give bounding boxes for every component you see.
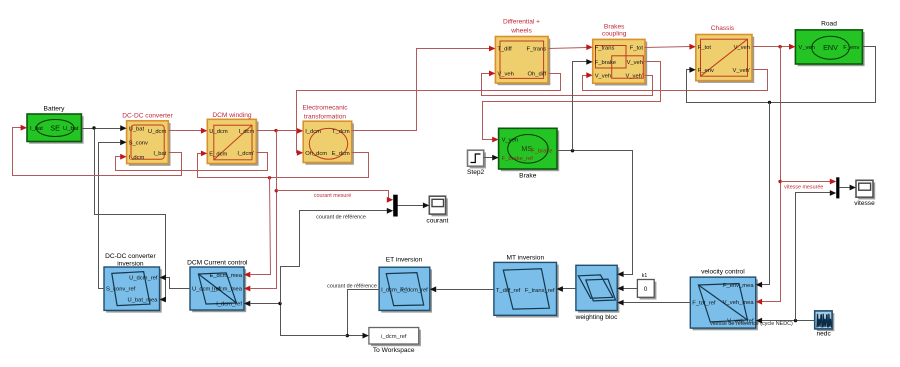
wire DC-DC U_dcm to DCM winding U_dcm (red)	[169, 130, 202, 132]
svg-text:S_conv_ref: S_conv_ref	[106, 287, 136, 293]
wire E_dcm measure down to DCM Current control E_dcm_mea (red)	[251, 178, 271, 275]
svg-text:F_env: F_env	[698, 68, 714, 74]
wire Battery U_bat to DC-DC converter U_bat (black)	[82, 128, 121, 130]
svg-text:V_veh: V_veh	[497, 72, 513, 78]
wire F_env measure down to velocity control F_env_mea (black)	[762, 103, 770, 285]
svg-text:U_bat_mea: U_bat_mea	[128, 298, 159, 304]
wire k1 to weighting bloc input 2 (black)	[624, 288, 638, 290]
svg-text:I_bat: I_bat	[30, 126, 43, 132]
wire F_brake up to Brakes coupling F_brake (black)	[573, 62, 587, 151]
svg-text:Oh_diff: Oh_diff	[528, 72, 547, 78]
wire i_dcm_ref to DCM Current control I_dcm_ref (black)	[251, 304, 348, 336]
node junction vitesse de reference	[794, 319, 797, 322]
svg-text:U_bat: U_bat	[63, 126, 79, 132]
svg-text:MT inversion: MT inversion	[506, 254, 544, 261]
control block DC-DC converter inversion	[106, 269, 162, 312]
svg-text:Step2: Step2	[467, 169, 485, 176]
source block Step2	[470, 152, 486, 168]
control block DCM Current control	[192, 269, 246, 312]
wire Electromecanic E_dcm feedback to DCM winding E_dcm (red)	[198, 153, 369, 178]
svg-text:V_veh: V_veh	[502, 138, 518, 144]
wire Differential Oh_diff feedback to Electromecanic Oh_dcm (red)	[297, 74, 561, 153]
svg-text:DC-DC converter: DC-DC converter	[122, 113, 173, 120]
svg-text:I_dcm_ref: I_dcm_ref	[216, 302, 242, 308]
svg-text:E_dcm_mea: E_dcm_mea	[209, 273, 242, 279]
svg-text:Electromecanic: Electromecanic	[302, 105, 348, 112]
wire Brakes V_veh (mid) to Brake V_veh (red)	[483, 62, 661, 140]
wire I_dcm measure down to DCM Current control I_dcm_mea (red)	[251, 131, 277, 289]
svg-text:U_dcm_ref: U_dcm_ref	[192, 287, 221, 293]
svg-text:E_dcm: E_dcm	[332, 151, 350, 157]
subsystem Differential + wheels	[498, 39, 551, 85]
svg-text:Brakes: Brakes	[604, 24, 625, 31]
svg-text:U_bat: U_bat	[129, 126, 145, 132]
subsystem Electromecanic transformation	[305, 123, 354, 164]
svg-text:E_dcm: E_dcm	[209, 152, 227, 158]
svg-text:F_trans: F_trans	[595, 45, 615, 51]
node junction i_dcm_ref	[346, 334, 349, 337]
wire Brakes V_veh' to Differential V_veh (red)	[482, 74, 653, 96]
control block MT inversion	[496, 265, 559, 318]
node junction courant de reference	[278, 302, 281, 305]
svg-text:I_dcm: I_dcm	[239, 129, 255, 135]
svg-text:V_veh: V_veh	[627, 60, 643, 66]
wire mux vitesse to scope vitesse (black)	[840, 187, 851, 189]
svg-text:ET inversion: ET inversion	[386, 257, 423, 264]
wire nedc to velocity control V_veh_ref (black)	[762, 320, 815, 322]
wire Brake F_brake to weighting bloc input 1 (black)	[557, 151, 633, 275]
source block Battery (SE)	[29, 116, 83, 144]
wire vitesse reference up to mux vitesse (black)	[796, 193, 831, 321]
wire Differential F_trans to Brakes coupling F_trans (red)	[549, 48, 587, 49]
svg-text:Oh_dcm: Oh_dcm	[305, 151, 327, 157]
svg-text:Chassis: Chassis	[711, 25, 735, 32]
wire MT inversion T_diff_ref to ET inversion T_dcm_ref (black)	[437, 289, 494, 291]
svg-text:coupling: coupling	[602, 31, 627, 38]
svg-text:Differential +: Differential +	[503, 19, 540, 26]
source block Brake (MS)	[501, 131, 559, 172]
wire courant mesure to mux (red)	[277, 191, 389, 200]
wire vitesse mesuree to mux (red)	[781, 181, 831, 183]
mux courant	[393, 195, 398, 217]
svg-text:ENV: ENV	[823, 43, 838, 52]
svg-text:V_veh_mea: V_veh_mea	[723, 300, 755, 306]
svg-text:V_veh': V_veh'	[625, 73, 643, 79]
node junction V_veh measure	[778, 45, 781, 48]
svg-text:I_dcm: I_dcm	[305, 129, 321, 135]
wire Chassis V_veh to Road V_veh (red)	[753, 46, 790, 48]
wire V_veh measure down to velocity control V_veh_mea (red)	[762, 47, 781, 302]
svg-text:wheels: wheels	[510, 28, 532, 35]
svg-text:DC-DC converter: DC-DC converter	[105, 253, 156, 260]
wire velocity control F_tot_ref to weighting bloc input 3 (black)	[624, 302, 691, 304]
svg-text:I_bat: I_bat	[153, 151, 166, 157]
svg-text:V_veh: V_veh	[595, 73, 611, 79]
svg-text:V_veh: V_veh	[734, 45, 750, 51]
source block nedc (NEDC cycle)	[817, 313, 834, 331]
svg-text:DCM winding: DCM winding	[212, 112, 252, 119]
svg-text:weighting bloc: weighting bloc	[575, 314, 618, 321]
svg-text:Road: Road	[821, 21, 837, 28]
svg-text:nedc: nedc	[816, 330, 831, 337]
wire DCM Current control U_dcm_ref to DC-DC inversion U_dcm_ref	[166, 278, 191, 289]
wire DCM winding I_dcm to Electromecanic I_dcm (red)	[257, 130, 298, 132]
node junction E_dcm measure	[268, 176, 271, 179]
svg-text:T_dcm: T_dcm	[332, 129, 350, 135]
svg-text:V_veh: V_veh	[798, 45, 814, 51]
To Workspace block i_dcm_ref	[371, 330, 421, 347]
svg-text:velocity control: velocity control	[701, 269, 745, 276]
wire DC-DC I_bat feedback to Battery I_bat (red)	[13, 128, 182, 176]
wire courant de reference staircase up to mux (black)	[281, 211, 388, 304]
wire mux courant to scope courant (black)	[398, 205, 424, 207]
svg-text:Brake: Brake	[519, 173, 537, 180]
wire ET inversion I_dcm_ref to To Workspace (black)	[348, 290, 380, 336]
wire Road F_env loop to Chassis F_env (black)	[687, 47, 876, 103]
svg-text:F_tot: F_tot	[698, 45, 712, 51]
svg-text:courant de référence: courant de référence	[327, 284, 377, 290]
control block ET inversion	[381, 269, 432, 312]
svg-text:F_tot: F_tot	[630, 45, 644, 51]
svg-text:V_veh': V_veh'	[732, 68, 750, 74]
svg-text:F_brake_ref: F_brake_ref	[502, 156, 534, 162]
wire U_bat measure down to DC-DC inversion U_bat_mea	[95, 129, 166, 300]
svg-text:To Workspace: To Workspace	[373, 347, 415, 354]
svg-text:k1: k1	[642, 273, 648, 279]
svg-text:I_dcm: I_dcm	[129, 155, 145, 161]
wire Electromecanic T_dcm up to Differential T_diff (red)	[352, 49, 490, 131]
node junction I_dcm measure	[274, 129, 277, 132]
control block velocity control	[693, 279, 758, 330]
svg-text:0: 0	[644, 286, 648, 293]
svg-text:F_trans: F_trans	[526, 47, 546, 53]
node junction on U_bat net	[92, 126, 95, 129]
svg-text:S_conv: S_conv	[129, 141, 148, 147]
wire Step2 to Brake F_brake_ref (black)	[484, 157, 493, 159]
wire weighting bloc to MT inversion F_trans_ref (black)	[563, 288, 576, 290]
scope block courant	[432, 198, 448, 216]
svg-text:U_dcm: U_dcm	[148, 129, 167, 135]
node junction vitesse mesuree	[778, 180, 781, 183]
svg-text:F_trans_ref: F_trans_ref	[525, 288, 555, 294]
subsystem DCM winding	[210, 122, 259, 166]
svg-text:i_dcm_ref: i_dcm_ref	[381, 334, 407, 340]
svg-text:Battery: Battery	[44, 106, 66, 113]
wire S_conv_ref from DC-DC inversion up to DC-DC converter S_conv	[99, 143, 121, 289]
svg-text:I_dcm': I_dcm'	[237, 151, 254, 157]
svg-text:T_diff_ref: T_diff_ref	[496, 288, 521, 294]
svg-text:SE: SE	[50, 123, 60, 132]
svg-text:courant: courant	[426, 217, 448, 224]
wire Chassis V_veh' feedback to Brakes coupling V_veh (red)	[583, 70, 768, 91]
svg-text:U_dcm_ref: U_dcm_ref	[129, 276, 158, 282]
svg-text:transformation: transformation	[304, 113, 346, 120]
scope block vitesse	[858, 183, 875, 200]
svg-text:F_env: F_env	[843, 45, 859, 51]
node junction F_brake	[571, 149, 574, 152]
svg-text:F_brake: F_brake	[595, 60, 616, 66]
svg-text:courant mesuré: courant mesuré	[314, 193, 351, 199]
control block weighting bloc	[578, 268, 619, 313]
wire Brakes F_tot to Chassis F_tot (red)	[645, 47, 691, 48]
mux vitesse	[836, 177, 839, 198]
svg-text:F_tot_ref: F_tot_ref	[692, 301, 716, 307]
svg-text:T_dcm_ref: T_dcm_ref	[400, 288, 428, 294]
svg-text:vitesse de référence (cycle NE: vitesse de référence (cycle NEDC)	[710, 321, 793, 327]
svg-text:F_env_mea: F_env_mea	[723, 283, 754, 289]
svg-text:DCM Current control: DCM Current control	[187, 259, 248, 266]
subsystem Chassis	[698, 37, 754, 83]
svg-text:inversion: inversion	[117, 261, 144, 268]
gain/constant block k1 (value 0)	[640, 282, 657, 300]
svg-text:F_brake: F_brake	[531, 149, 552, 155]
subsystem Brakes coupling	[595, 42, 647, 86]
svg-text:T_diff: T_diff	[497, 47, 512, 53]
node junction F_env measure	[768, 101, 771, 104]
svg-text:courant de référence: courant de référence	[316, 214, 366, 220]
subsystem DC-DC converter	[129, 123, 171, 166]
svg-text:vitesse: vitesse	[854, 200, 875, 207]
svg-text:U_dcm: U_dcm	[209, 129, 228, 135]
source block Road (ENV)	[798, 32, 865, 66]
svg-text:vitesse mesurée: vitesse mesurée	[784, 184, 823, 190]
node junction courant mesure	[275, 189, 278, 192]
wire DCM winding I_dcm' feedback to DC-DC I_dcm (red)	[116, 153, 268, 171]
